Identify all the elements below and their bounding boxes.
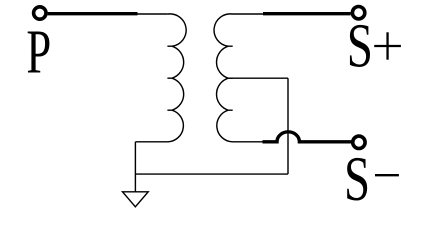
wire S+ lead (263, 12, 351, 15)
label S+ (347, 11, 401, 81)
wire primary bottom to ground stem (134, 142, 136, 192)
transformer primary winding (135, 14, 186, 142)
wire center-tap vertical (287, 78, 289, 174)
wire P lead (48, 12, 138, 15)
svg-text:P: P (26, 17, 51, 86)
label S- (344, 144, 399, 215)
terminal S+ (352, 7, 364, 19)
svg-text:S: S (347, 11, 373, 81)
wire primary top (137, 13, 168, 15)
wire center-tap horizontal (228, 77, 288, 79)
terminal S- (353, 136, 365, 148)
svg-text:S: S (344, 144, 370, 210)
ground (123, 192, 149, 207)
terminal P (34, 7, 46, 19)
wire ground net horizontal (135, 173, 288, 175)
transformer secondary winding (214, 14, 266, 142)
wire S- lead with hop (263, 132, 352, 142)
